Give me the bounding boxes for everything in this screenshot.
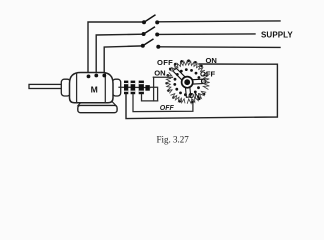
wire supply line 2 left vertical xyxy=(96,34,143,75)
motor terminal dot 3 xyxy=(102,74,106,78)
svg-text:Fig. 3.27: Fig. 3.27 xyxy=(157,135,190,145)
rotary contact dots xyxy=(173,68,200,96)
terminal block bar 3 xyxy=(139,81,144,95)
terminal block bar slits xyxy=(124,84,144,92)
wire supply line 2 right xyxy=(158,33,255,36)
svg-text:OFF: OFF xyxy=(160,105,175,112)
motor left end cap xyxy=(61,79,70,96)
svg-text:ON: ON xyxy=(154,68,165,77)
switch blade 2 xyxy=(142,27,160,37)
rotary jagged ring segment bottom-right xyxy=(187,91,206,103)
motor base neck xyxy=(78,101,116,106)
wire supply line 1 right xyxy=(158,20,280,23)
terminal block bar 2 xyxy=(131,81,136,95)
svg-text:ON: ON xyxy=(188,91,199,100)
motor body inner line right xyxy=(104,74,106,103)
motor body inner line left xyxy=(76,74,78,103)
motor right end cap xyxy=(113,79,121,96)
rotary tip dots top xyxy=(165,59,205,103)
switch blade 3 xyxy=(141,39,161,49)
motor terminal dot 1 xyxy=(87,75,91,79)
rotary jagged ring segment left xyxy=(166,72,172,93)
motor base plate xyxy=(78,105,117,112)
wire ON-left contact underline xyxy=(153,76,172,78)
switch blade 1 xyxy=(142,15,159,25)
terminal block wire xyxy=(119,86,150,88)
rotary spoke down xyxy=(185,86,191,98)
wire junction vertical from ON-left contact xyxy=(153,77,155,101)
svg-text:SUPPLY: SUPPLY xyxy=(261,30,293,39)
terminal block end lug xyxy=(145,85,149,91)
motor body xyxy=(70,73,114,103)
wire supply line 3 right xyxy=(159,46,281,49)
rotary switch hub xyxy=(182,77,193,88)
svg-text:OFF: OFF xyxy=(157,58,173,67)
wire loop W1: block bar1 down, bottom run, right side up, top run to rotary xyxy=(126,64,277,119)
svg-text:OFF: OFF xyxy=(200,69,216,78)
wire supply line 3 left vertical xyxy=(104,46,142,76)
wire W2: block bar2 down, run right under rotary, up to rotary bottom xyxy=(133,94,193,111)
rotary spoke up-left xyxy=(173,68,186,81)
wire from block bar3 down xyxy=(142,94,158,101)
rotary jagged ring segment right xyxy=(203,72,210,90)
svg-text:M: M xyxy=(91,85,98,95)
wire supply line 1 left vertical xyxy=(88,22,143,76)
terminal block bar 1 xyxy=(124,81,128,95)
motor shaft xyxy=(29,84,65,88)
motor terminal dot 2 xyxy=(94,74,98,78)
svg-text:ON: ON xyxy=(206,56,217,65)
wire from block lug right and down xyxy=(150,87,158,101)
rotary spoke right pad xyxy=(202,79,206,83)
rotary jagged ring segment bottom-left xyxy=(171,94,186,104)
rotary jagged ring segment top xyxy=(170,61,205,72)
rotary spoke right xyxy=(191,79,203,84)
